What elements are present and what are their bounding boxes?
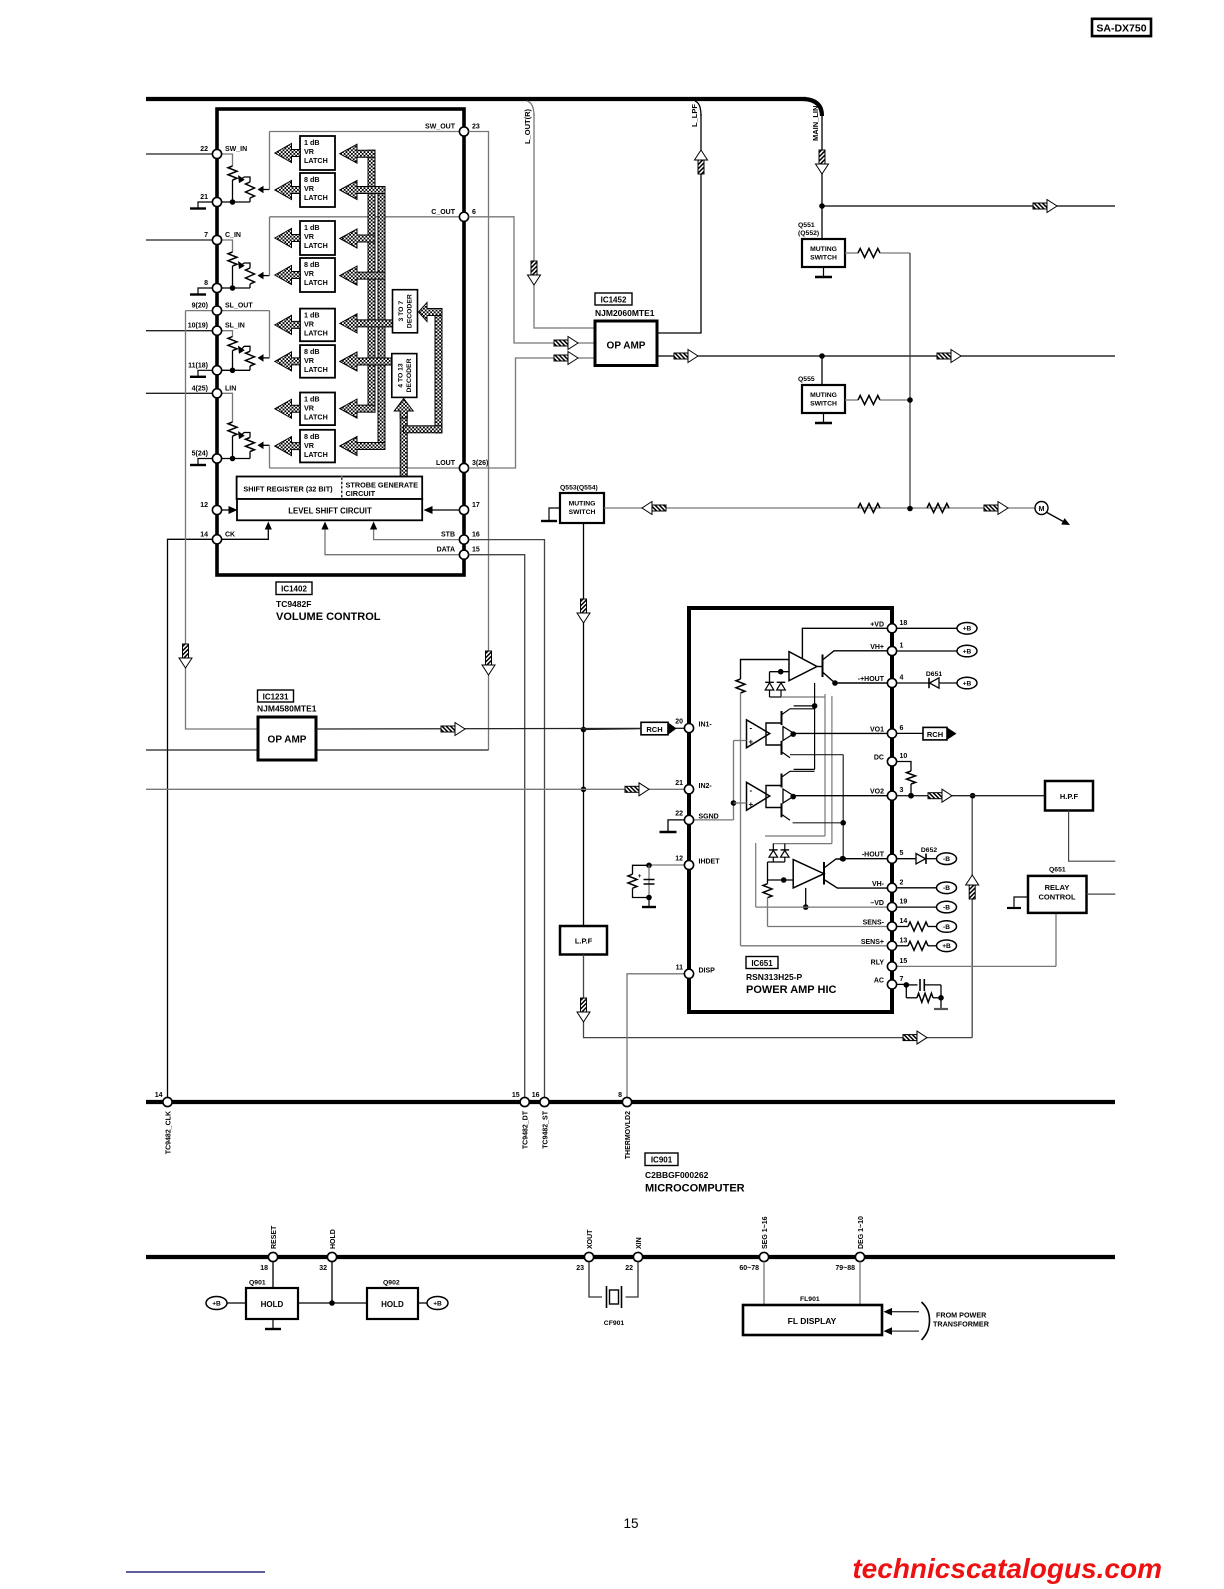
svg-text:5: 5	[900, 850, 904, 857]
svg-text:14: 14	[155, 1092, 163, 1099]
svg-text:+B: +B	[963, 680, 972, 687]
svg-text:LOUT: LOUT	[436, 460, 456, 467]
svg-text:-B: -B	[943, 856, 950, 863]
svg-text:TC9482F: TC9482F	[276, 599, 311, 609]
svg-text:+: +	[749, 737, 754, 746]
svg-text:DISP: DISP	[699, 967, 716, 974]
svg-text:22: 22	[675, 810, 683, 817]
svg-text:+B: +B	[942, 943, 951, 950]
svg-text:1 dB: 1 dB	[304, 223, 320, 232]
svg-text:8 dB: 8 dB	[304, 260, 320, 269]
svg-text:CF901: CF901	[604, 1320, 625, 1327]
svg-text:20: 20	[675, 719, 683, 726]
svg-text:4: 4	[900, 675, 904, 682]
svg-text:H.P.F: H.P.F	[1060, 792, 1079, 801]
svg-text:TC9482_CLK: TC9482_CLK	[166, 1111, 173, 1154]
svg-text:VR: VR	[304, 441, 315, 450]
svg-text:–VD: –VD	[870, 900, 884, 907]
svg-text:HOLD: HOLD	[381, 1300, 404, 1309]
svg-text:THERMOVLD2: THERMOVLD2	[625, 1111, 632, 1159]
svg-text:CK: CK	[225, 531, 235, 538]
svg-text:SW_OUT: SW_OUT	[425, 124, 456, 131]
svg-text:23: 23	[472, 124, 480, 131]
svg-text:23: 23	[576, 1265, 584, 1272]
svg-text:16: 16	[532, 1092, 540, 1099]
svg-text:32: 32	[319, 1265, 327, 1272]
svg-text:60~78: 60~78	[739, 1265, 759, 1272]
svg-text:-B: -B	[943, 924, 950, 931]
svg-text:M: M	[1039, 506, 1045, 513]
svg-text:IC1231: IC1231	[263, 693, 289, 702]
svg-text:6: 6	[472, 209, 476, 216]
svg-text:OP AMP: OP AMP	[607, 341, 646, 352]
svg-text:MUTING: MUTING	[569, 501, 596, 508]
svg-text:22: 22	[200, 146, 208, 153]
svg-text:15: 15	[512, 1092, 520, 1099]
svg-text:8: 8	[204, 280, 208, 287]
svg-text:RELAY: RELAY	[1045, 883, 1070, 892]
svg-text:10(19): 10(19)	[188, 323, 208, 330]
svg-text:9(20): 9(20)	[192, 303, 208, 310]
svg-text:SW_IN: SW_IN	[225, 146, 247, 153]
svg-text:SL_IN: SL_IN	[225, 323, 245, 330]
svg-text:LIN: LIN	[225, 385, 236, 392]
svg-text:3 TO 7: 3 TO 7	[398, 301, 405, 322]
svg-text:+: +	[638, 873, 642, 880]
svg-text:-: -	[750, 723, 753, 732]
svg-text:L_OUT(R): L_OUT(R)	[523, 109, 532, 144]
svg-text:(Q552): (Q552)	[798, 230, 819, 237]
svg-text:RCH: RCH	[927, 730, 943, 739]
svg-text:L.P.F: L.P.F	[575, 937, 593, 946]
svg-text:HOLD: HOLD	[261, 1300, 284, 1309]
svg-text:8 dB: 8 dB	[304, 347, 320, 356]
svg-text:+VD: +VD	[870, 621, 884, 628]
svg-text:+: +	[749, 800, 754, 809]
svg-text:LATCH: LATCH	[304, 278, 328, 287]
svg-text:C_OUT: C_OUT	[431, 209, 455, 216]
svg-text:MUTING: MUTING	[810, 246, 837, 253]
svg-text:IN1-: IN1-	[699, 722, 713, 729]
svg-text:IC1452: IC1452	[601, 296, 627, 305]
svg-text:SWITCH: SWITCH	[810, 255, 837, 262]
svg-text:1 dB: 1 dB	[304, 395, 320, 404]
svg-text:11: 11	[676, 964, 684, 971]
svg-text:CONTROL: CONTROL	[1038, 893, 1075, 902]
svg-text:13: 13	[900, 937, 908, 944]
svg-text:STB: STB	[441, 532, 455, 539]
svg-text:21: 21	[200, 194, 208, 201]
svg-text:SWITCH: SWITCH	[810, 401, 837, 408]
svg-text:MAIN_LIN: MAIN_LIN	[811, 106, 820, 141]
svg-text:LATCH: LATCH	[304, 241, 328, 250]
svg-text:technicscatalogus.com: technicscatalogus.com	[852, 1553, 1162, 1584]
svg-text:VR: VR	[304, 232, 315, 241]
svg-text:18: 18	[260, 1265, 268, 1272]
svg-text:Q553(Q554): Q553(Q554)	[560, 485, 598, 492]
svg-text:LEVEL SHIFT CIRCUIT: LEVEL SHIFT CIRCUIT	[288, 507, 372, 516]
svg-text:VR: VR	[304, 404, 315, 413]
svg-text:NJM4580MTE1: NJM4580MTE1	[257, 704, 317, 714]
svg-text:7: 7	[900, 976, 904, 983]
svg-text:LATCH: LATCH	[304, 156, 328, 165]
svg-text:AC: AC	[874, 977, 884, 984]
svg-text:+B: +B	[963, 648, 972, 655]
svg-text:SGND: SGND	[699, 813, 719, 820]
svg-text:RESET: RESET	[271, 1225, 278, 1249]
svg-text:DECODER: DECODER	[406, 358, 413, 392]
svg-text:18: 18	[900, 620, 908, 627]
svg-text:NJM2060MTE1: NJM2060MTE1	[595, 308, 655, 318]
svg-text:XOUT: XOUT	[587, 1229, 594, 1249]
svg-text:IHDET: IHDET	[699, 859, 721, 866]
svg-text:CIRCUIT: CIRCUIT	[346, 489, 376, 498]
svg-text:1: 1	[900, 643, 904, 650]
svg-text:FL901: FL901	[800, 1296, 820, 1303]
svg-text:SEG 1~16: SEG 1~16	[762, 1216, 769, 1249]
svg-text:1 dB: 1 dB	[304, 311, 320, 320]
svg-text:IC651: IC651	[751, 959, 773, 968]
svg-text:RCH: RCH	[646, 725, 662, 734]
svg-text:MUTING: MUTING	[810, 392, 837, 399]
svg-text:LATCH: LATCH	[304, 365, 328, 374]
svg-text:MICROCOMPUTER: MICROCOMPUTER	[645, 1183, 745, 1195]
svg-text:8 dB: 8 dB	[304, 432, 320, 441]
svg-text:VOLUME CONTROL: VOLUME CONTROL	[276, 611, 381, 623]
svg-text:XIN: XIN	[636, 1237, 643, 1249]
svg-text:TRANSFORMER: TRANSFORMER	[933, 1320, 990, 1329]
svg-text:6: 6	[900, 725, 904, 732]
svg-text:3: 3	[900, 787, 904, 794]
svg-text:+B: +B	[433, 1300, 442, 1307]
svg-text:79~88: 79~88	[835, 1265, 855, 1272]
svg-text:VH-: VH-	[872, 881, 885, 888]
svg-text:LATCH: LATCH	[304, 329, 328, 338]
svg-text:10: 10	[900, 753, 908, 760]
svg-text:C_IN: C_IN	[225, 232, 241, 239]
svg-text:TC9482_DT: TC9482_DT	[523, 1110, 530, 1149]
svg-text:IN2-: IN2-	[699, 783, 713, 790]
svg-text:VR: VR	[304, 147, 315, 156]
svg-text:22: 22	[625, 1265, 633, 1272]
svg-text:7: 7	[204, 232, 208, 239]
svg-text:8: 8	[618, 1092, 622, 1099]
svg-text:POWER AMP HIC: POWER AMP HIC	[746, 984, 837, 996]
svg-text:+B: +B	[212, 1300, 221, 1307]
svg-text:2: 2	[900, 879, 904, 886]
svg-text:RSN313H25-P: RSN313H25-P	[746, 972, 803, 982]
svg-text:Q902: Q902	[383, 1280, 400, 1287]
svg-text:VR: VR	[304, 269, 315, 278]
svg-text:14: 14	[200, 531, 208, 538]
svg-text:1 dB: 1 dB	[304, 138, 320, 147]
svg-text:-HOUT: -HOUT	[862, 852, 885, 859]
svg-text:12: 12	[200, 502, 208, 509]
svg-text:16: 16	[472, 532, 480, 539]
svg-text:Q901: Q901	[249, 1280, 266, 1287]
svg-text:17: 17	[472, 502, 480, 509]
svg-text:3(26): 3(26)	[472, 460, 488, 467]
svg-text:4(25): 4(25)	[192, 385, 208, 392]
svg-text:C2BBGF000262: C2BBGF000262	[645, 1170, 709, 1180]
svg-text:VO1: VO1	[870, 726, 884, 733]
svg-text:D652: D652	[921, 847, 937, 854]
svg-text:VR: VR	[304, 356, 315, 365]
svg-text:15: 15	[472, 547, 480, 554]
svg-text:14: 14	[900, 918, 908, 925]
svg-text:VH+: VH+	[870, 644, 884, 651]
svg-text:8 dB: 8 dB	[304, 175, 320, 184]
svg-text:Q551: Q551	[798, 222, 815, 229]
svg-text:-: -	[750, 786, 753, 795]
svg-text:DECODER: DECODER	[407, 294, 414, 328]
svg-text:SENS+: SENS+	[861, 939, 884, 946]
svg-text:L_LPF: L_LPF	[690, 104, 699, 127]
svg-text:OP AMP: OP AMP	[268, 735, 307, 746]
svg-text:VR: VR	[304, 184, 315, 193]
svg-text:15: 15	[623, 1516, 638, 1531]
svg-text:IC901: IC901	[651, 1156, 673, 1165]
svg-text:-+HOUT: -+HOUT	[858, 676, 885, 683]
svg-text:FROM POWER: FROM POWER	[936, 1311, 987, 1320]
svg-text:Q555: Q555	[798, 376, 815, 383]
svg-text:15: 15	[900, 958, 908, 965]
svg-text:DC: DC	[874, 755, 884, 762]
svg-text:-B: -B	[943, 885, 950, 892]
svg-text:VO2: VO2	[870, 789, 884, 796]
svg-text:DEG 1~10: DEG 1~10	[858, 1216, 865, 1249]
svg-text:21: 21	[675, 780, 683, 787]
svg-text:SENS-: SENS-	[863, 920, 885, 927]
svg-text:HOLD: HOLD	[330, 1229, 337, 1249]
svg-text:4 TO 13: 4 TO 13	[397, 363, 404, 388]
svg-text:IC1402: IC1402	[281, 585, 307, 594]
svg-text:VR: VR	[304, 320, 315, 329]
svg-text:+B: +B	[963, 626, 972, 633]
svg-text:12: 12	[675, 856, 683, 863]
svg-text:SL_OUT: SL_OUT	[225, 303, 253, 310]
svg-text:DATA: DATA	[437, 547, 455, 554]
svg-text:11(18): 11(18)	[188, 362, 208, 369]
svg-text:SA-DX750: SA-DX750	[1096, 23, 1146, 35]
svg-text:LATCH: LATCH	[304, 413, 328, 422]
svg-text:Q651: Q651	[1049, 867, 1066, 874]
svg-text:D651: D651	[926, 671, 942, 678]
svg-text:LATCH: LATCH	[304, 450, 328, 459]
svg-text:FL DISPLAY: FL DISPLAY	[788, 1316, 837, 1326]
svg-text:SWITCH: SWITCH	[569, 509, 596, 516]
svg-text:SHIFT REGISTER (32 BIT): SHIFT REGISTER (32 BIT)	[243, 485, 333, 494]
svg-text:RLY: RLY	[871, 959, 885, 966]
svg-text:19: 19	[900, 899, 908, 906]
svg-text:LATCH: LATCH	[304, 193, 328, 202]
svg-text:5(24): 5(24)	[192, 451, 208, 458]
svg-text:-B: -B	[943, 905, 950, 912]
svg-text:TC9482_ST: TC9482_ST	[543, 1110, 550, 1148]
